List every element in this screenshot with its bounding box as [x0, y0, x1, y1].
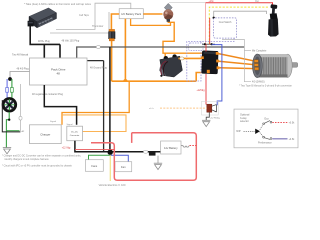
svg-text:Signal: Signal: [50, 121, 57, 123]
wire: black main 12v bus bottom: [75, 141, 161, 152]
junction: node on +13v line: [213, 17, 215, 19]
svg-text:Two 48 Manual: Two 48 Manual: [12, 54, 29, 57]
component: power transistor Q1: [202, 101, 219, 115]
svg-text:Performance: Performance: [258, 142, 272, 145]
svg-text:Eco: Eco: [265, 118, 270, 121]
wire: green branch A2: [6, 130, 19, 132]
junction: wire hop on orange bus: [124, 80, 127, 82]
component: main contactor K1: [159, 54, 182, 77]
svg-text:Vehicle Electrics V. 100: Vehicle Electrics V. 100: [99, 183, 126, 187]
svg-text:DC-DC: DC-DC: [71, 132, 78, 134]
component: DC-DC Converter box: [67, 126, 83, 141]
svg-text:Fan: Fan: [121, 165, 126, 169]
wire: selector common dashed: [244, 130, 256, 132]
connector: gap marker: [180, 57, 184, 60]
component: 12v Battery box: [161, 141, 181, 154]
wire: gray sense with fuse pill: [19, 84, 21, 132]
component: dash gauge cluster: [2, 97, 17, 112]
junction: green node: [8, 119, 10, 121]
junction: node A main battery neg: [8, 77, 12, 81]
wire: yellow +5v dashed to throttle: [209, 7, 267, 44]
component: HV fuse F1: [108, 29, 115, 41]
svg-text:Signal: Signal: [67, 124, 74, 126]
svg-text:48: 48: [57, 72, 61, 76]
svg-text:+13v: +13v: [209, 1, 215, 3]
wire: orange HV pack left to fuse: [111, 14, 119, 30]
ground: chassis ground bottom left: [3, 148, 11, 154]
svg-text:+12 Vdg: +12 Vdg: [62, 147, 71, 149]
component: Pack Drive box: [30, 58, 88, 85]
connector: gap marker on gray bus: [96, 46, 100, 49]
wire: gray loop controller to HV pack: [50, 3, 131, 33]
wire: orange drop to DC-DC converter: [62, 81, 129, 125]
component: battery fuse symbol: [181, 146, 189, 148]
svg-text:+12 Relay: +12 Relay: [210, 118, 221, 120]
switch: Eco: [260, 125, 263, 130]
wire: red +13v top run to throttle: [206, 3, 273, 7]
junction: dot B: [204, 43, 206, 45]
switch: Performance: [260, 133, 263, 137]
component: drive motor M1: [253, 54, 298, 78]
wire: orange HV to ignition pot: [143, 13, 162, 15]
component: battery neg terminal: [149, 151, 156, 156]
wire: violet performance output: [272, 138, 287, 140]
svg-text:* Take (2ea) 4 AWG cables to t: * Take (2ea) 4 AWG cables to thermistor …: [24, 2, 92, 6]
wire: orange fuse bottom drop: [111, 41, 113, 81]
wire: long gray signal bus: [77, 47, 245, 58]
wire: orange contactor to relay: [178, 57, 202, 59]
svg-text:selector: selector: [240, 120, 249, 123]
svg-text:4/0 (2AWG): 4/0 (2AWG): [252, 81, 265, 84]
wire: blue emitter run: [212, 45, 222, 106]
svg-text:48 Volt 13S Plug: 48 Volt 13S Plug: [62, 40, 80, 43]
wire: black gauge left leg: [2, 100, 20, 132]
wire: red dashed eco output: [272, 121, 287, 123]
wire: three phase orange wires to motor: [218, 54, 255, 69]
wire: red 12v charging loop: [91, 133, 196, 181]
component: thumb throttle: [268, 4, 279, 36]
svg-text:12v Battery: 12v Battery: [164, 146, 178, 150]
wire: orange HV pack bottom drop: [124, 19, 126, 81]
svg-text:48 4/0 Plug: 48 4/0 Plug: [17, 67, 30, 70]
wire: gray signal to throttle: [214, 11, 267, 18]
component: selector pole arrow: [255, 129, 260, 134]
svg-text:Charger: Charger: [40, 133, 50, 137]
wire: dark 12V feeds down: [103, 61, 105, 152]
svg-text:Thermistor: Thermistor: [92, 25, 104, 28]
component: dashed interlock box: [189, 43, 204, 51]
wire: yellow drop from node: [109, 155, 111, 181]
svg-text:Cust Switch: Cust Switch: [219, 21, 232, 24]
component: Fan box: [115, 162, 132, 172]
wire: green gauge down to ground: [6, 112, 9, 147]
component: Fans box: [85, 160, 103, 172]
component: ignition key pot: [163, 3, 173, 21]
svg-text:48 negative to contactor Plug: 48 negative to contactor Plug: [32, 93, 64, 96]
component: motor controller relay block: [201, 51, 220, 74]
wire: battery to ground: [157, 156, 159, 163]
wire: black node wire above relay: [202, 43, 215, 45]
svg-text:Mtr Complete: Mtr Complete: [252, 50, 267, 53]
svg-text:alt. b: alt. b: [149, 107, 155, 110]
wire: green to Fans box: [89, 155, 111, 159]
wire: purple dashed switch to coil: [187, 38, 234, 81]
svg-text:* Two Type B Manual to 3-ph an: * Two Type B Manual to 3-ph and 6-ph con…: [239, 85, 293, 88]
component: HV Battery Pack: [119, 9, 143, 19]
wire: gray top link pot to bus: [169, 1, 206, 3]
svg-text:Cell Taps: Cell Taps: [79, 14, 90, 17]
component: BMS controller isometric box U1: [28, 8, 57, 28]
wire: blue gauge feed: [6, 79, 8, 99]
svg-text:* Circuit with IPC or +5 PV co: * Circuit with IPC or +5 PV controller m…: [2, 164, 72, 167]
wire: orange bus riser to relay: [196, 69, 208, 81]
wire: green gauge feed: [11, 79, 13, 99]
wire: gray motor label bracket: [222, 40, 251, 82]
wire: black pack drive bottom to DC-DC: [44, 85, 76, 125]
wire: light orange to DC-DC right: [62, 115, 126, 132]
wire: blue to Fan box: [110, 155, 128, 161]
wire: red riser at 131.7: [131, 133, 133, 143]
svg-text:Out: Out: [255, 0, 259, 3]
wire: red dashes to loop: [190, 145, 197, 147]
svg-text:+12Vdg: +12Vdg: [197, 90, 206, 92]
wire: red down to transistor: [209, 18, 211, 44]
junction: main 12v node: [108, 150, 113, 155]
component: blue inline fuse: [6, 88, 9, 93]
svg-text:+0.5k: +0.5k: [289, 139, 296, 141]
component: inline fuse pill: [19, 116, 22, 120]
component: 3-way selector box: [234, 109, 298, 148]
svg-text:M P: M P: [237, 131, 242, 133]
wire: black from controller to pack drive: [30, 25, 60, 58]
component: Charger box: [30, 125, 62, 144]
svg-text:Converter: Converter: [70, 134, 80, 137]
svg-text:48 B+ Plug: 48 B+ Plug: [38, 40, 50, 43]
component: green inline fuse: [10, 88, 13, 93]
connector: gap marker on bus: [143, 150, 147, 153]
ground: battery ground arrow: [154, 163, 162, 169]
svg-text:48 Ground Plug: 48 Ground Plug: [90, 66, 107, 69]
wire: transistor to ground: [206, 112, 209, 120]
svg-text:+0.5k: +0.5k: [289, 123, 296, 125]
svg-text:HV Battery Pack: HV Battery Pack: [121, 12, 141, 16]
wire: peach base drive dashed: [160, 107, 207, 109]
wire: red +12 feed: [75, 148, 114, 150]
wire: pack drive to junction node: [10, 72, 30, 80]
ground: transistor ground arrow: [202, 120, 210, 126]
wire: orange bus to contactor coil circuit: [131, 19, 171, 26]
svg-text:Fans: Fans: [91, 164, 97, 168]
wire: orange pot staircase to precharge: [163, 22, 202, 57]
junction: dot C: [211, 43, 213, 45]
component: on-off switch dashed box SW1: [214, 18, 237, 38]
wire: orange main bus horizontal: [112, 80, 197, 82]
svg-text:identify chargers to suit comp: identify chargers to suit complete harne…: [5, 158, 50, 161]
